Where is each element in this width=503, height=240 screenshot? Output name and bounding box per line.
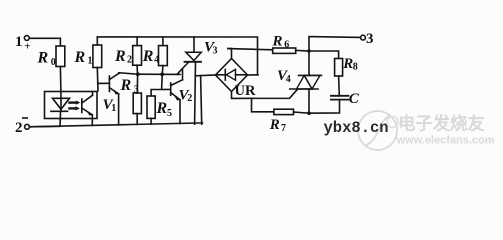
node D junction dot	[307, 111, 311, 115]
light arrows of optocoupler	[70, 101, 81, 111]
svg-text:2: 2	[15, 120, 23, 136]
wire phototransistor collector up	[92, 92, 94, 96]
resistor R3	[133, 93, 141, 114]
watermark elecfans logo circle	[387, 117, 398, 128]
terminal 3	[361, 35, 366, 40]
top supply rail	[97, 37, 257, 75]
resistor R4	[159, 46, 168, 66]
svg-text:8: 8	[353, 62, 358, 73]
LED diode of optocoupler V1	[51, 98, 70, 111]
wire rail to V3 anode	[193, 37, 195, 52]
svg-text:1: 1	[88, 56, 93, 67]
svg-text:R: R	[74, 49, 86, 66]
svg-text:R: R	[37, 50, 49, 67]
wire LED cathode inside box	[59, 111, 61, 120]
wire LED cathode to terminal 2	[30, 119, 61, 127]
svg-text:3: 3	[213, 45, 218, 56]
svg-text:6: 6	[284, 39, 289, 50]
wire R7 right to node D	[294, 112, 310, 113]
node B junction dot	[160, 72, 164, 76]
label V2	[179, 87, 193, 104]
wire V2 collector to V3 gate	[182, 69, 184, 80]
wire node C down to triac V4 top	[308, 51, 310, 75]
wire terminal 1 to R0	[29, 38, 60, 46]
label V3	[204, 39, 218, 56]
wire V3 cathode to bridge left corner	[195, 74, 216, 77]
svg-text:4: 4	[154, 55, 159, 66]
label R4	[142, 48, 160, 66]
node A junction dot	[136, 72, 140, 76]
wire node B down to V2 base and R5	[151, 74, 162, 96]
wire R4 top to rail	[162, 37, 164, 46]
label R6	[272, 33, 290, 50]
svg-text:3: 3	[366, 31, 374, 47]
wire Q1 collector to node A	[119, 73, 138, 75]
svg-text:1: 1	[15, 34, 23, 50]
bridge rectifier UR diamond	[216, 59, 248, 92]
label R1	[74, 49, 93, 67]
svg-text:电子发烧友: 电子发烧友	[398, 114, 485, 134]
label R0	[37, 50, 56, 68]
wire R1 bottom to collector node	[96, 68, 99, 91]
label R5	[156, 100, 173, 119]
wire R4 bottom to node B	[161, 66, 164, 75]
resistor R6	[273, 48, 296, 53]
wire R6 right to node C	[296, 49, 309, 52]
svg-text:UR: UR	[235, 83, 256, 99]
wire R1 top to rail	[96, 37, 98, 45]
wire R0 to optocoupler LED anode	[59, 67, 62, 99]
transistor Q1 (left, unlabeled NPN)	[109, 73, 118, 94]
label V4	[277, 68, 291, 85]
phototransistor of optocoupler V1	[82, 95, 93, 115]
label R8	[342, 56, 358, 73]
resistor R8	[335, 59, 343, 77]
thyristor V3	[185, 52, 202, 62]
svg-text:5: 5	[167, 108, 172, 119]
diode inside bridge UR	[217, 69, 246, 80]
optocoupler U1 box	[45, 92, 98, 119]
transistor V2	[171, 80, 183, 101]
wire node A to node B	[138, 73, 180, 75]
resistor R5	[147, 96, 155, 118]
wire R2 bottom to node A	[136, 65, 138, 74]
svg-text:R: R	[272, 33, 283, 49]
svg-text:R: R	[269, 117, 280, 133]
svg-text:R: R	[120, 77, 132, 94]
wire V3 gate	[178, 62, 189, 74]
svg-text:4: 4	[286, 74, 291, 85]
wire C bottom to node D	[309, 100, 340, 114]
wire phototransistor emitter to bottom rail	[91, 115, 93, 126]
resistor R1	[93, 45, 102, 68]
svg-text:1: 1	[111, 103, 116, 114]
terminal 2	[25, 124, 30, 129]
svg-text:R: R	[114, 48, 126, 65]
wire node C to R8	[309, 51, 339, 59]
svg-text:2: 2	[187, 93, 192, 104]
svg-text:ybx8.cn: ybx8.cn	[324, 119, 389, 137]
resistor R7	[274, 109, 294, 114]
wire base branch to V2	[162, 88, 171, 90]
label R7	[269, 117, 286, 134]
svg-text:3: 3	[134, 84, 139, 95]
wire R2 top to rail	[136, 37, 138, 46]
wire bridge bottom corner to triac gate	[232, 90, 298, 99]
label V1	[103, 97, 117, 114]
wire R3 bottom to bottom rail	[136, 114, 138, 125]
triac V4	[290, 75, 322, 89]
watermark logo circle (ybx8)	[358, 111, 397, 150]
svg-text:R: R	[156, 100, 168, 117]
wire triac V4 bottom to node D	[308, 89, 310, 113]
resistor R0	[56, 46, 65, 67]
wire bridge top corner to R6 net	[228, 49, 232, 59]
wire Q1 emitter to bottom rail	[118, 94, 120, 125]
wire bridge net down to bottom rail end	[201, 76, 202, 125]
label R2	[114, 48, 132, 66]
svg-text:2: 2	[127, 55, 132, 66]
svg-text:R: R	[142, 48, 154, 65]
bottom rail	[30, 123, 203, 127]
terminal 1	[24, 36, 29, 41]
wire V3 cathode down to bottom rail	[194, 62, 197, 124]
label R3	[120, 77, 139, 95]
wire R5 bottom to bottom rail	[150, 118, 152, 124]
svg-text:+: +	[24, 41, 30, 53]
wire node C to terminal 3	[309, 37, 361, 51]
node C junction dot	[307, 49, 311, 53]
wire bridge right corner to rail jog	[248, 74, 259, 76]
svg-text:R: R	[342, 56, 353, 72]
wire gate net down to R7	[252, 98, 274, 111]
wire V2 emitter to bottom rail	[179, 100, 181, 124]
wire R6 left	[228, 49, 273, 50]
svg-text:0: 0	[51, 57, 56, 68]
wire node A to R3 top	[136, 74, 138, 93]
resistor R2	[133, 46, 142, 66]
capacitor C	[331, 96, 349, 100]
svg-text:7: 7	[281, 123, 286, 134]
svg-text:www.elecfans.com: www.elecfans.com	[396, 135, 495, 147]
wire R8 to capacitor C	[338, 76, 341, 96]
wire collector node to base of left transistor	[98, 82, 110, 84]
minus sign	[22, 117, 28, 119]
svg-text:C: C	[349, 91, 360, 107]
